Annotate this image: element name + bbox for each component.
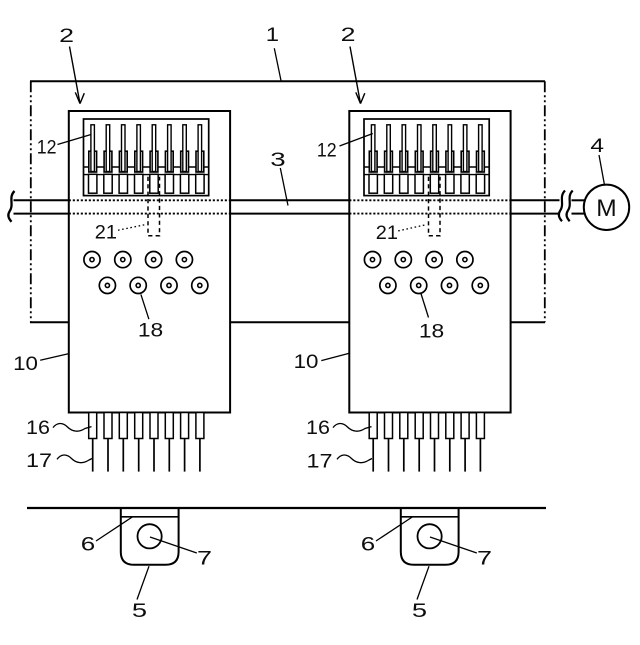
needle bar 12 #2 of head A: clamp sleeve — [104, 151, 112, 172]
thread tensioner 18 row1 #4 of head B — [457, 252, 473, 268]
svg-text:17: 17 — [26, 450, 52, 472]
svg-text:21: 21 — [376, 222, 398, 244]
svg-text:4: 4 — [590, 134, 604, 156]
leader line for 21 (left head, dotted) — [118, 225, 145, 230]
presser/needle holder 16 #6 of head A — [165, 413, 173, 439]
presser/needle holder 16 #2 of head A — [104, 413, 112, 439]
needle 17 #5 of head A — [153, 439, 155, 472]
thread tensioner 18 row1 #2 of head A — [115, 252, 131, 268]
needle bar 12 #5 of head B: clamp sleeve — [431, 151, 439, 172]
needle bar 12 #7 of head A: thin upper bar — [183, 125, 187, 172]
needle bar 12 #1 of head B: clamp sleeve — [369, 151, 377, 172]
svg-text:7: 7 — [197, 547, 212, 569]
needle bar 12 #2 of head A: thin upper bar — [106, 125, 110, 172]
thread tensioner 18 row2 #2 of head B — [411, 277, 427, 293]
drive shaft 3 hidden (dotted) inside head A, lower line — [69, 213, 230, 215]
needle bar 12 #3 of head A: thin upper bar — [122, 125, 126, 172]
svg-text:2: 2 — [59, 25, 74, 47]
drive shaft 3: solid segment right of head B, upper line — [510, 199, 560, 201]
needle-bar case frame of head B — [364, 119, 489, 196]
svg-text:12: 12 — [37, 136, 57, 158]
presser/needle holder 16 #3 of head B — [400, 413, 408, 439]
leader line for 6 (left shuttle) — [96, 517, 133, 542]
needle bar 12 #6 of head A: thin upper bar — [168, 125, 172, 172]
wavy leader for 16 (right head) — [333, 424, 372, 432]
presser/needle holder 16 #2 of head B — [385, 413, 393, 439]
needle 17 #6 of head B — [449, 439, 451, 472]
needle-bar case frame of head A — [84, 119, 209, 196]
leader line for 7 (left shuttle) — [150, 537, 197, 553]
needle bar 12 #5 of head B: thin upper bar — [433, 125, 437, 172]
needle 17 #7 of head B — [464, 439, 466, 472]
leader line for 6 (right shuttle) — [376, 517, 413, 542]
presser/needle holder 16 #1 of head A — [89, 413, 97, 439]
svg-text:16: 16 — [306, 417, 330, 439]
needle 17 #5 of head B — [434, 439, 436, 472]
thread tensioner 18 row2 #2 of head A — [130, 277, 146, 293]
leader line for 4 — [599, 155, 604, 184]
thread tensioner 18 row2 #4 of head A — [192, 277, 208, 293]
shaft break symbol, right pair stroke 1 — [559, 191, 565, 222]
needle bar 12 #3 of head A: clamp sleeve — [119, 151, 127, 172]
guide rail lower in head A — [84, 174, 209, 176]
presser/needle holder 16 #7 of head A — [181, 413, 189, 439]
drive shaft 3 hidden (dotted) inside head B, lower line — [349, 213, 510, 215]
leader line for 12 (right head) — [340, 134, 373, 147]
thread tensioner 18 row1 #3 of head B — [426, 252, 442, 268]
needle bar 12 #4 of head A: thin upper bar — [137, 125, 141, 172]
needle 17 #4 of head A — [138, 439, 140, 472]
svg-text:6: 6 — [361, 533, 375, 555]
leader line for 10 (left head) — [40, 354, 68, 360]
needle bar 12 #6 of head B: thin upper bar — [448, 125, 452, 172]
needle bar 12 #1 of head A: thin upper bar — [91, 125, 95, 172]
presser/needle holder 16 #6 of head B — [446, 413, 454, 439]
thread tensioner 18 row2 #3 of head A — [161, 277, 177, 293]
needle bar 12 #7 of head B: clamp sleeve — [461, 151, 469, 172]
drive shaft 3: solid segment between heads, upper line — [229, 199, 351, 201]
svg-text:5: 5 — [412, 600, 427, 621]
thread tensioner 18 row1 #3 of head A — [146, 252, 162, 268]
drive shaft 3 hidden (dotted) inside head A, upper line — [69, 199, 230, 201]
needle bar 12 #6 of head A: lower tube — [165, 174, 173, 193]
thread tensioner 18 row1 #2 of head B — [395, 252, 411, 268]
needle 17 #1 of head B — [372, 439, 374, 472]
needle bar 12 #5 of head B: lower tube — [430, 174, 438, 193]
needle bar 12 #2 of head B: lower tube — [384, 174, 392, 193]
svg-text:2: 2 — [341, 23, 356, 45]
needle 17 #7 of head A — [184, 439, 186, 472]
leader line for 10 (right head) — [321, 353, 350, 361]
needle bar 12 #8 of head B: thin upper bar — [479, 125, 483, 172]
needle bar 12 #5 of head A: thin upper bar — [152, 125, 156, 172]
drive shaft 3: solid segment left of head A, lower line — [14, 213, 70, 215]
presser/needle holder 16 #4 of head A — [135, 413, 143, 439]
svg-text:21: 21 — [95, 222, 117, 244]
shuttle mount plate 6 (right) — [401, 516, 459, 518]
needle 17 #1 of head A — [92, 439, 94, 472]
needle bar 12 #5 of head A: lower tube — [150, 174, 158, 193]
needle bar 12 #8 of head A: clamp sleeve — [196, 151, 204, 172]
needle bar 12 #7 of head A: clamp sleeve — [181, 151, 189, 172]
needle bar 12 #7 of head B: lower tube — [461, 174, 469, 193]
leader line for 21 (right head, dotted) — [398, 225, 425, 231]
machine frame 1: bottom edge — [30, 321, 545, 323]
guide rail lower in head B — [364, 174, 489, 176]
needle bar 12 #6 of head A: clamp sleeve — [165, 151, 173, 172]
thread tensioner 18 row2 #1 of head B — [380, 277, 396, 293]
needle bar 12 #8 of head B: clamp sleeve — [477, 151, 485, 172]
shaft break symbol, right pair stroke 2 — [566, 191, 572, 222]
needle bar 12 #6 of head B: lower tube — [446, 174, 454, 193]
presser/needle holder 16 #8 of head B — [476, 413, 484, 439]
svg-text:17: 17 — [306, 450, 332, 472]
needle bar 12 #6 of head B: clamp sleeve — [446, 151, 454, 172]
needle bar 12 #3 of head B: thin upper bar — [402, 125, 406, 172]
leader line for 7 (right shuttle) — [430, 537, 477, 553]
svg-text:5: 5 — [132, 600, 147, 621]
needle bar 12 #3 of head B: clamp sleeve — [400, 151, 408, 172]
machine frame 1: top edge — [30, 80, 545, 82]
needle 17 #6 of head A — [168, 439, 170, 472]
needle bar 12 #3 of head B: lower tube — [400, 174, 408, 193]
needle bar 12 #2 of head B: clamp sleeve — [385, 151, 393, 172]
presser/needle holder 16 #5 of head A — [150, 413, 158, 439]
needle bar 12 #1 of head B: thin upper bar — [371, 125, 375, 172]
leader line for 3 — [280, 168, 288, 206]
shuttle case 5 (left) — [121, 508, 179, 565]
needle bar 12 #1 of head A: lower tube — [89, 174, 97, 193]
needle 17 #8 of head B — [479, 439, 481, 472]
needle bar 12 #4 of head A: clamp sleeve — [135, 151, 143, 172]
needle 17 #8 of head A — [199, 439, 201, 472]
needle bar 12 #2 of head A: lower tube — [104, 174, 112, 193]
machine head unit A: body 10 — [69, 111, 230, 413]
needle bar 12 #4 of head A: lower tube — [135, 174, 143, 193]
drive shaft 3: solid segment left of head A, upper line — [14, 199, 70, 201]
hidden drive channel 21 of head A (dashed) — [148, 177, 160, 236]
needle 17 #2 of head B — [388, 439, 390, 472]
needle 17 #4 of head B — [418, 439, 420, 472]
presser/needle holder 16 #3 of head A — [119, 413, 127, 439]
drive shaft 3: solid segment between heads, lower line — [229, 213, 351, 215]
svg-text:3: 3 — [270, 149, 285, 171]
leader line for 5 (right shuttle) — [417, 566, 429, 599]
arrow leader for 2 (left head) — [70, 47, 85, 104]
presser/needle holder 16 #5 of head B — [431, 413, 439, 439]
svg-text:7: 7 — [477, 547, 492, 569]
leader line for 18 (right head) — [421, 293, 429, 318]
leader line for 18 (left head) — [141, 294, 149, 319]
guide rail upper in head A — [84, 166, 209, 168]
thread tensioner 18 row1 #1 of head B — [364, 252, 380, 268]
leader line for 5 (left shuttle) — [137, 566, 149, 599]
needle bar 12 #2 of head B: thin upper bar — [387, 125, 391, 172]
drive shaft 3: stub into motor, lower line — [572, 213, 585, 215]
svg-text:1: 1 — [266, 23, 279, 45]
wavy leader for 17 (right head) — [337, 455, 372, 463]
needle bar 12 #1 of head B: lower tube — [369, 174, 377, 193]
needle bar 12 #8 of head B: lower tube — [476, 174, 484, 193]
leader line for 12 (left head) — [58, 135, 92, 145]
arrow leader for 2 (right head) — [350, 47, 365, 104]
drive shaft 3 hidden (dotted) inside head B, upper line — [349, 199, 510, 201]
needle bar 12 #7 of head A: lower tube — [180, 174, 188, 193]
shaft break symbol, left end — [8, 191, 14, 222]
shuttle case 5 (right) — [401, 508, 459, 565]
needle bar 12 #8 of head A: lower tube — [196, 174, 204, 193]
presser/needle holder 16 #7 of head B — [461, 413, 469, 439]
thread tensioner 18 row1 #4 of head A — [176, 252, 192, 268]
shuttle mount plate 6 (left) — [121, 516, 179, 518]
needle 17 #2 of head A — [107, 439, 109, 472]
needle bar 12 #7 of head B: thin upper bar — [463, 125, 467, 172]
presser/needle holder 16 #4 of head B — [415, 413, 423, 439]
rotary hook 7 (right) — [418, 524, 442, 548]
needle bar 12 #3 of head A: lower tube — [119, 174, 127, 193]
rotary hook 7 (left) — [138, 524, 162, 548]
needle 17 #3 of head A — [122, 439, 124, 472]
wavy leader for 16 (left head) — [53, 424, 92, 432]
thread tensioner 18 row2 #4 of head B — [472, 277, 488, 293]
svg-text:M: M — [596, 195, 616, 222]
svg-text:6: 6 — [81, 533, 95, 555]
hidden drive channel 21 of head B (dashed) — [429, 177, 441, 236]
needle bar 12 #4 of head B: clamp sleeve — [415, 151, 423, 172]
machine head unit B: body 10 — [349, 111, 510, 413]
svg-text:18: 18 — [138, 320, 163, 341]
needle bar 12 #5 of head A: clamp sleeve — [150, 151, 158, 172]
needle 17 #3 of head B — [403, 439, 405, 472]
needle bar 12 #4 of head B: lower tube — [415, 174, 423, 193]
drive shaft 3: solid segment right of head B, lower line — [510, 213, 560, 215]
presser/needle holder 16 #1 of head B — [369, 413, 377, 439]
leader line for 1 — [274, 48, 281, 81]
wavy leader for 17 (left head) — [57, 455, 92, 463]
svg-text:10: 10 — [294, 351, 319, 372]
svg-text:10: 10 — [13, 353, 38, 374]
needle bar 12 #4 of head B: thin upper bar — [418, 125, 422, 172]
machine frame 1: right edge (phantom dash-dot-dot) — [544, 81, 546, 322]
thread tensioner 18 row2 #3 of head B — [441, 277, 457, 293]
svg-text:12: 12 — [317, 139, 337, 161]
svg-text:18: 18 — [419, 321, 444, 342]
presser/needle holder 16 #8 of head A — [196, 413, 204, 439]
drive shaft 3: stub into motor, upper line — [572, 199, 585, 201]
machine frame 1: left edge (phantom dash-dot-dot) — [30, 81, 32, 322]
table top line — [27, 507, 546, 509]
needle bar 12 #8 of head A: thin upper bar — [198, 125, 202, 172]
motor 4 circle — [584, 185, 629, 230]
needle bar 12 #1 of head A: clamp sleeve — [89, 151, 97, 172]
guide rail upper in head B — [364, 166, 489, 168]
thread tensioner 18 row1 #1 of head A — [84, 252, 100, 268]
svg-text:16: 16 — [26, 417, 50, 439]
thread tensioner 18 row2 #1 of head A — [99, 277, 115, 293]
